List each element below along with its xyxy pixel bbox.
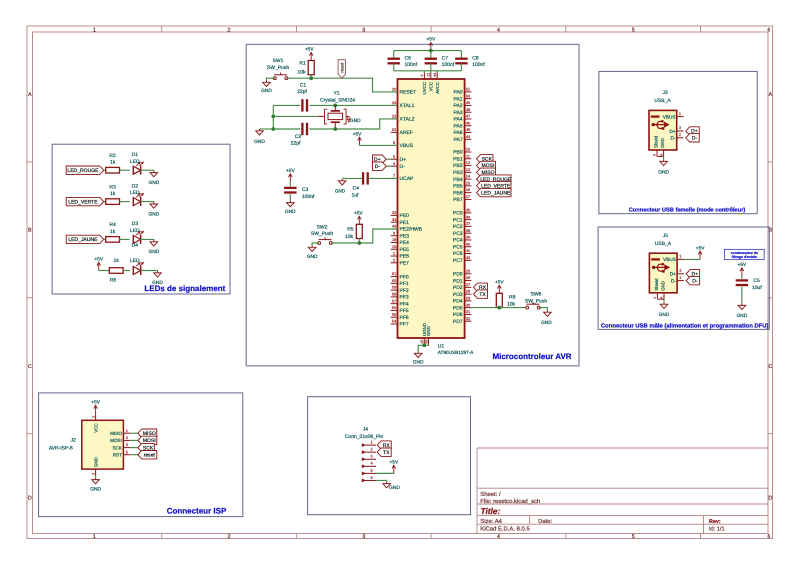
svg-text:C4: C4 [353,185,360,191]
svg-text:GND: GND [389,485,400,491]
svg-text:+5V: +5V [286,168,295,174]
svg-text:R1: R1 [299,60,306,66]
svg-text:Shield: Shield [654,278,659,291]
svg-text:23: 23 [392,115,396,119]
svg-text:1: 1 [679,255,681,259]
svg-text:D: D [768,496,772,502]
svg-text:2: 2 [393,258,395,262]
svg-text:49: 49 [466,101,470,105]
svg-text:PA5: PA5 [454,123,463,129]
svg-text:PE7: PE7 [400,260,410,266]
svg-text:A: A [28,92,32,98]
svg-text:PA2: PA2 [454,103,463,109]
svg-text:LED_ROUGE: LED_ROUGE [67,168,99,174]
svg-text:1k: 1k [114,258,120,264]
svg-text:SW_Push: SW_Push [311,231,333,237]
svg-text:D-: D- [671,278,676,283]
svg-text:33: 33 [392,211,396,215]
svg-text:PB5: PB5 [453,184,463,190]
svg-text:PA4: PA4 [454,117,463,123]
svg-text:5: 5 [393,155,395,159]
svg-text:GND: GND [307,254,318,260]
svg-text:+5V: +5V [305,47,314,53]
svg-text:MISO: MISO [110,431,122,436]
svg-text:36: 36 [466,215,470,219]
svg-text:GND: GND [285,209,296,215]
svg-text:AREF: AREF [400,130,413,136]
svg-text:4: 4 [660,297,664,299]
svg-text:61: 61 [392,272,396,276]
svg-text:GND: GND [148,249,159,255]
svg-text:8: 8 [393,141,395,145]
svg-text:1: 1 [93,27,96,33]
svg-text:PF0: PF0 [400,274,409,280]
svg-text:PF1: PF1 [400,281,409,287]
svg-text:12: 12 [466,161,470,165]
svg-text:R9: R9 [509,295,516,301]
svg-text:5: 5 [370,469,372,473]
svg-text:SW_Push: SW_Push [525,298,547,304]
svg-text:GND: GND [660,138,665,148]
svg-text:PE3: PE3 [400,233,410,239]
svg-text:13: 13 [466,168,470,172]
svg-text:3: 3 [370,455,372,459]
svg-text:LED_JAUNE: LED_JAUNE [68,237,98,243]
svg-text:Connecteur USB femelle (mode c: Connecteur USB femelle (mode contrôleur) [629,207,746,214]
svg-text:PD7: PD7 [453,319,463,325]
svg-text:1k: 1k [110,229,116,235]
svg-text:PC2: PC2 [453,224,463,230]
svg-text:PC4: PC4 [453,238,463,244]
svg-text:PC0: PC0 [453,211,463,217]
svg-text:45: 45 [466,128,470,132]
svg-text:3: 3 [679,126,681,130]
svg-text:PA6: PA6 [454,130,463,136]
svg-text:PD0: PD0 [453,272,463,278]
svg-text:1: 1 [679,112,681,116]
svg-text:GND: GND [93,457,98,467]
svg-text:TX: TX [479,292,486,298]
svg-text:PA1: PA1 [454,96,463,102]
svg-text:18: 18 [392,238,396,242]
svg-text:5: 5 [653,154,657,156]
svg-text:SW2: SW2 [317,224,328,230]
svg-text:39: 39 [466,236,470,240]
svg-text:2: 2 [370,448,372,452]
svg-text:C: C [768,364,772,370]
svg-text:Size: A4: Size: A4 [480,518,502,525]
svg-text:41: 41 [466,249,470,253]
svg-text:GND: GND [148,180,159,186]
svg-text:46: 46 [466,121,470,125]
svg-text:VBUS: VBUS [400,143,414,149]
svg-text:1k: 1k [110,160,116,166]
svg-text:GND: GND [658,169,669,175]
svg-text:10k: 10k [297,69,306,75]
svg-text:B: B [28,228,32,234]
svg-text:21: 21 [427,73,431,77]
svg-text:Crystal_GND24: Crystal_GND24 [320,98,355,104]
svg-text:Microcontroleur AVR: Microcontroleur AVR [492,352,571,361]
svg-text:KiCad E.D.A. 8.0.5: KiCad E.D.A. 8.0.5 [480,526,530,533]
svg-text:D4: D4 [132,243,139,249]
svg-text:UCAP: UCAP [400,176,415,182]
svg-text:GND: GND [261,88,272,94]
svg-text:RESET: RESET [400,90,417,96]
svg-text:PB0: PB0 [453,150,463,156]
svg-text:PF2: PF2 [400,288,409,294]
svg-text:SW6: SW6 [531,292,542,298]
svg-text:Date:: Date: [538,518,552,525]
svg-text:4: 4 [497,534,500,540]
svg-text:38: 38 [466,229,470,233]
svg-text:1: 1 [370,441,372,445]
svg-text:PF3: PF3 [400,295,409,301]
svg-text:Connecteur USB mâle (alimentat: Connecteur USB mâle (alimentation et pro… [601,322,769,329]
svg-text:Y1: Y1 [333,91,339,97]
svg-text:1uf: 1uf [352,192,360,198]
svg-text:55: 55 [392,313,396,317]
svg-text:19: 19 [392,245,396,249]
svg-text:XTAL1: XTAL1 [400,103,415,109]
svg-text:PD6: PD6 [453,312,463,318]
svg-text:USB_A: USB_A [654,98,671,104]
svg-text:1k: 1k [110,191,116,197]
svg-text:PD3: PD3 [453,292,463,298]
svg-text:GND: GND [335,188,346,193]
svg-text:1: 1 [93,534,96,540]
svg-text:U1: U1 [438,344,445,350]
svg-text:J3: J3 [662,90,668,96]
svg-text:R3: R3 [109,184,116,190]
svg-text:C5: C5 [754,278,761,284]
svg-text:25: 25 [466,269,470,273]
svg-text:C3: C3 [302,187,309,193]
svg-text:PC7: PC7 [453,258,463,264]
svg-text:PD5: PD5 [453,305,463,311]
svg-text:PF6: PF6 [400,315,409,321]
svg-text:D+: D+ [400,157,407,163]
svg-text:LED_JAUNE: LED_JAUNE [481,190,511,196]
svg-text:Sheet: /: Sheet: / [480,491,501,498]
svg-text:AVCC: AVCC [435,82,440,94]
svg-text:Title:: Title: [481,506,501,516]
svg-text:VBUS: VBUS [663,114,676,119]
svg-text:3: 3 [362,534,365,540]
svg-text:GND: GND [413,360,424,366]
svg-text:C2: C2 [295,134,302,140]
svg-text:GND: GND [148,211,159,217]
svg-text:3: 3 [679,269,681,273]
svg-text:+5V: +5V [91,400,100,406]
svg-text:+5V: +5V [696,245,705,251]
svg-text:9: 9 [393,231,395,235]
svg-text:PE2/HWB: PE2/HWB [400,227,423,233]
svg-text:J4: J4 [363,427,369,433]
svg-text:PE0: PE0 [400,213,410,219]
svg-text:PC3: PC3 [453,231,463,237]
svg-text:PD2: PD2 [453,285,463,291]
svg-text:PF4: PF4 [400,301,409,307]
svg-text:D-: D- [692,136,698,142]
svg-text:GND: GND [90,486,101,492]
svg-text:17: 17 [466,195,470,199]
svg-text:C8: C8 [472,56,479,62]
svg-text:48: 48 [466,108,470,112]
svg-text:D+: D+ [670,272,676,277]
svg-text:63: 63 [424,340,428,344]
svg-text:USB_A: USB_A [655,241,672,247]
svg-text:2: 2 [228,534,231,540]
svg-text:LED_VERTE: LED_VERTE [68,199,98,205]
svg-text:PB4: PB4 [453,177,463,183]
svg-text:26: 26 [466,276,470,280]
svg-text:D+: D+ [669,129,675,134]
svg-text:51: 51 [466,88,470,92]
svg-text:File: resetco.kicad_sch: File: resetco.kicad_sch [480,498,540,505]
svg-text:D-: D- [671,136,676,141]
svg-text:3: 3 [420,75,424,77]
svg-text:UVCC: UVCC [422,82,427,94]
svg-text:60: 60 [392,279,396,283]
svg-text:LED: LED [130,228,140,234]
svg-text:RST: RST [113,452,122,457]
svg-text:D1: D1 [132,152,139,158]
svg-text:5: 5 [126,450,128,454]
svg-text:50: 50 [466,94,470,98]
svg-text:37: 37 [466,222,470,226]
svg-text:VCC: VCC [93,423,98,432]
svg-text:R2: R2 [109,153,116,159]
svg-text:10k: 10k [507,301,516,307]
svg-text:59: 59 [392,286,396,290]
svg-text:MOSI: MOSI [110,438,122,443]
svg-text:D: D [28,496,32,502]
svg-text:PE6: PE6 [400,254,410,260]
svg-text:R4: R4 [109,222,116,228]
svg-text:3: 3 [362,27,365,33]
svg-text:PA3: PA3 [454,110,463,116]
svg-text:29: 29 [466,296,470,300]
svg-text:4: 4 [497,27,500,33]
svg-text:R5: R5 [347,227,354,233]
svg-text:58: 58 [392,293,396,297]
svg-text:3: 3 [126,443,128,447]
svg-text:1: 1 [393,252,395,256]
svg-text:22pf: 22pf [291,140,301,146]
svg-text:10: 10 [466,148,470,152]
svg-text:22pf: 22pf [297,89,307,95]
svg-text:PD4: PD4 [453,299,463,305]
svg-text:2: 2 [679,133,681,137]
svg-text:C6: C6 [405,56,412,62]
svg-text:43: 43 [392,225,396,229]
svg-text:6: 6 [767,27,770,33]
svg-text:1: 1 [126,429,128,433]
svg-text:+5V: +5V [354,210,363,216]
svg-text:PC6: PC6 [453,251,463,257]
svg-text:TX: TX [383,450,390,456]
svg-text:4: 4 [659,154,663,156]
svg-text:PB6: PB6 [453,190,463,196]
svg-text:PB3: PB3 [453,170,463,176]
svg-text:J5: J5 [663,233,669,239]
svg-text:+5V: +5V [389,459,398,465]
svg-text:6: 6 [370,476,372,480]
svg-text:+5V: +5V [738,262,747,268]
svg-text:Rev:: Rev: [709,519,721,525]
svg-text:PC1: PC1 [453,217,463,223]
svg-text:16: 16 [466,188,470,192]
svg-text:reset: reset [144,452,156,458]
svg-text:PB7: PB7 [453,197,463,203]
svg-text:SCK: SCK [112,445,122,450]
svg-text:57: 57 [392,299,396,303]
svg-text:PB2: PB2 [453,163,463,169]
svg-text:47: 47 [466,115,470,119]
svg-text:11: 11 [466,154,470,158]
svg-text:+5V: +5V [426,37,435,43]
svg-text:R8: R8 [110,278,117,284]
svg-text:PF5: PF5 [400,308,409,314]
svg-text:Conn_01x06_Pin: Conn_01x06_Pin [345,434,384,440]
svg-text:42: 42 [466,256,470,260]
svg-text:Shield: Shield [654,135,659,148]
svg-text:D-: D- [692,278,698,284]
svg-text:56: 56 [392,306,396,310]
svg-text:100nf: 100nf [302,194,315,200]
svg-text:VCC: VCC [429,82,434,91]
svg-text:30: 30 [466,303,470,307]
svg-text:10k: 10k [345,234,354,240]
svg-text:PA0: PA0 [454,90,463,96]
svg-text:XTAL2: XTAL2 [400,117,415,123]
svg-text:PE1: PE1 [400,220,410,226]
svg-text:15: 15 [466,181,470,185]
svg-text:+5V: +5V [94,257,103,263]
svg-text:+5V: +5V [353,131,362,137]
svg-text:6: 6 [767,534,770,540]
svg-text:6: 6 [91,473,95,475]
svg-text:PA7: PA7 [454,137,463,143]
svg-text:LED: LED [130,258,140,264]
svg-text:PB1: PB1 [453,156,463,162]
svg-text:5: 5 [632,27,635,33]
svg-text:5: 5 [653,297,657,299]
svg-text:AT90USB1287-A: AT90USB1287-A [438,350,474,355]
svg-text:AVR-ISP-6: AVR-ISP-6 [49,445,73,451]
svg-text:C1: C1 [300,83,307,89]
svg-text:PC5: PC5 [453,244,463,250]
svg-text:SW_Push: SW_Push [267,65,289,71]
svg-text:C: C [28,364,32,370]
svg-text:C7: C7 [442,56,449,62]
svg-text:Id: 1/1: Id: 1/1 [709,525,725,532]
svg-text:PE5: PE5 [400,247,410,253]
svg-text:7: 7 [393,174,395,178]
svg-text:filtrage d'entrée: filtrage d'entrée [732,255,757,259]
svg-text:100nf: 100nf [472,62,485,68]
svg-text:PE4: PE4 [400,240,410,246]
svg-text:100nf: 100nf [405,62,418,68]
svg-text:A: A [768,92,772,98]
svg-text:2: 2 [91,416,95,418]
svg-text:28: 28 [466,290,470,294]
svg-text:GND: GND [426,326,431,336]
svg-text:LED: LED [130,190,140,196]
svg-text:D-: D- [400,164,406,170]
svg-text:20: 20 [392,88,396,92]
svg-text:VBUS: VBUS [663,257,676,262]
svg-text:2: 2 [679,276,681,280]
svg-text:GND: GND [254,139,265,145]
svg-text:+5V: +5V [495,279,504,285]
svg-text:SW1: SW1 [273,58,284,64]
svg-text:31: 31 [466,310,470,314]
svg-text:62: 62 [392,128,396,132]
svg-text:GND: GND [541,320,552,326]
svg-text:GND: GND [661,281,666,291]
svg-text:Connecteur ISP: Connecteur ISP [167,507,227,516]
svg-text:D3: D3 [132,221,139,227]
svg-text:35: 35 [466,209,470,213]
svg-text:PD1: PD1 [453,278,463,284]
svg-text:10uf: 10uf [752,285,762,291]
svg-text:2: 2 [228,27,231,33]
svg-text:32: 32 [466,317,470,321]
svg-text:reset: reset [339,62,344,73]
svg-text:5: 5 [632,534,635,540]
svg-text:J2: J2 [70,438,76,444]
svg-text:GND: GND [659,312,670,318]
svg-text:D-: D- [375,164,381,170]
svg-text:64: 64 [433,73,437,77]
svg-text:LED: LED [130,159,140,165]
svg-text:GND: GND [152,280,163,286]
svg-text:GND: GND [737,313,748,319]
svg-text:GND: GND [350,118,361,124]
svg-text:27: 27 [466,283,470,287]
svg-text:D2: D2 [132,183,139,189]
svg-text:100nf: 100nf [442,62,455,68]
svg-text:40: 40 [466,242,470,246]
svg-text:PF7: PF7 [400,322,409,328]
